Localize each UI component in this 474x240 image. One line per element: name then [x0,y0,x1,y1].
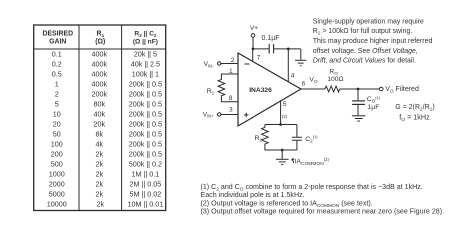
svg-text:400k: 400k [92,69,108,78]
svg-text:This may produce higher input: This may produce higher input referred [313,38,433,45]
svg-text:40k: 40k [94,109,106,118]
svg-text:200k || 0.5: 200k || 0.5 [129,99,162,108]
svg-text:2M || 0.05: 2M || 0.05 [130,179,162,188]
svg-text:200k || 0.5: 200k || 0.5 [129,149,162,158]
svg-text:2k: 2k [96,179,104,188]
svg-text:4k: 4k [96,139,104,148]
svg-text:10: 10 [53,109,61,118]
svg-text:1: 1 [55,79,59,88]
svg-text:200k || 0.5: 200k || 0.5 [129,139,162,148]
svg-text:C2(1): C2(1) [305,134,318,143]
svg-text:3: 3 [229,107,233,114]
svg-text:2k: 2k [97,199,105,208]
svg-text:5: 5 [55,99,59,108]
svg-text:7: 7 [257,54,261,61]
svg-text:5M || 0.02: 5M || 0.02 [130,189,162,198]
svg-text:V+: V+ [250,25,258,32]
svg-text:0.1µF: 0.1µF [262,35,280,42]
svg-text:100Ω: 100Ω [327,76,343,83]
svg-text:VO Filtered: VO Filtered [385,86,419,93]
svg-text:20k: 20k [94,119,106,128]
svg-text:40k || 2.5: 40k || 2.5 [131,59,160,68]
svg-text:CO(1): CO(1) [367,95,381,103]
svg-text:80k: 80k [94,99,106,108]
svg-text:(3) Output offset voltage requ: (3) Output offset voltage required for m… [201,208,445,216]
svg-text:INA326: INA326 [249,87,272,94]
svg-text:Each individual pole is at 1.5: Each individual pole is at 1.5kHz. [201,191,305,199]
svg-text:200k || 0.5: 200k || 0.5 [129,119,162,128]
svg-text:DESIRED: DESIRED [42,31,73,38]
svg-text:100k || 1: 100k || 1 [132,69,159,78]
svg-text:R2 > 100kΩ for full output swi: R2 > 100kΩ for full output swing. [313,28,413,37]
svg-text:5: 5 [283,101,287,108]
svg-text:5000: 5000 [49,189,65,198]
svg-text:200k || 0.5: 200k || 0.5 [129,129,162,138]
svg-text:R2: R2 [255,135,263,143]
svg-text:10M || 0.01: 10M || 0.01 [128,199,164,208]
svg-text:offset voltage. See Offset Vol: offset voltage. See Offset Voltage, [313,48,418,55]
svg-text:400k: 400k [92,49,108,58]
svg-text:20k || 5: 20k || 5 [134,49,157,58]
svg-text:GAIN: GAIN [49,38,66,45]
svg-text:Single-supply operation may re: Single-supply operation may require [313,19,424,26]
svg-text:VIN+: VIN+ [203,111,215,118]
svg-text:200k || 0.5: 200k || 0.5 [129,79,162,88]
svg-text:200k || 0.5: 200k || 0.5 [129,89,162,98]
svg-text:2k: 2k [96,149,104,158]
svg-text:400k: 400k [92,59,108,68]
svg-text:0.1: 0.1 [52,49,62,58]
svg-text:0.5: 0.5 [52,69,62,78]
svg-text:2k: 2k [96,169,104,178]
svg-text:2: 2 [55,89,59,98]
svg-text:0.2: 0.2 [52,59,62,68]
svg-text:1µF: 1µF [368,104,380,111]
svg-text:2000: 2000 [49,179,65,188]
svg-text:1000: 1000 [49,169,65,178]
svg-text:400k: 400k [92,79,108,88]
svg-text:200k || 0.5: 200k || 0.5 [129,109,162,118]
svg-text:2: 2 [231,57,235,64]
svg-text:VO: VO [309,77,318,84]
svg-text:20: 20 [53,119,61,128]
svg-text:100: 100 [51,139,63,148]
svg-text:G = 2(R2/R1): G = 2(R2/R1) [395,104,434,113]
svg-text:2k: 2k [96,159,104,168]
svg-text:10000: 10000 [47,199,67,208]
svg-text:500: 500 [51,159,63,168]
svg-text:50: 50 [53,129,61,138]
svg-text:(Ω || nF): (Ω || nF) [133,38,158,45]
svg-text:IACOMMON(2): IACOMMON(2) [295,157,330,167]
svg-text:Drift, and Circuit Values for: Drift, and Circuit Values for detail. [313,58,416,65]
svg-text:500k || 0.2: 500k || 0.2 [129,159,162,168]
svg-text:fO = 1kHz: fO = 1kHz [399,113,430,124]
svg-text:8k: 8k [96,129,104,138]
svg-text:8: 8 [229,95,233,102]
svg-text:VIN-: VIN- [204,61,215,68]
svg-text:2k: 2k [96,189,104,198]
svg-text:1M || 0.1: 1M || 0.1 [132,169,160,178]
svg-text:R1: R1 [207,88,215,96]
svg-text:1: 1 [229,68,233,75]
svg-text:(3): (3) [282,114,288,119]
svg-text:200k: 200k [92,89,108,98]
svg-text:6: 6 [302,81,306,88]
svg-text:R2 || C2: R2 || C2 [134,31,156,39]
svg-text:200: 200 [51,149,63,158]
svg-text:RO: RO [329,68,338,75]
svg-text:(Ω): (Ω) [95,38,105,45]
svg-text:4: 4 [291,72,295,79]
